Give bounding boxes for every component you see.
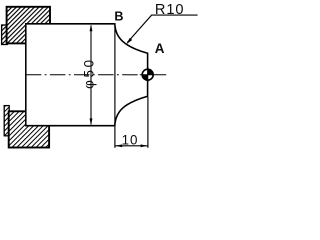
svg-text:A: A <box>155 41 165 56</box>
node A point marker <box>142 69 153 80</box>
svg-text:R10: R10 <box>155 2 184 18</box>
svg-text:B: B <box>114 9 123 23</box>
svg-text:10: 10 <box>122 133 139 148</box>
wire: stock boundary line B to B' extended <box>114 24 116 148</box>
chuck jaw bottom <box>9 111 49 147</box>
wire through point A <box>147 67 149 84</box>
chuck body tab bottom-left <box>4 106 9 136</box>
dimension 10 <box>115 145 148 147</box>
wire: extension line at face below A <box>147 97 149 148</box>
workpiece outline <box>26 24 148 126</box>
chuck body tab top-left <box>2 25 8 45</box>
centerline <box>26 74 138 76</box>
svg-text:φ50: φ50 <box>81 60 96 89</box>
dimension line phi50 <box>90 26 92 125</box>
chuck jaw top <box>7 7 50 44</box>
leader R10 <box>127 15 197 42</box>
